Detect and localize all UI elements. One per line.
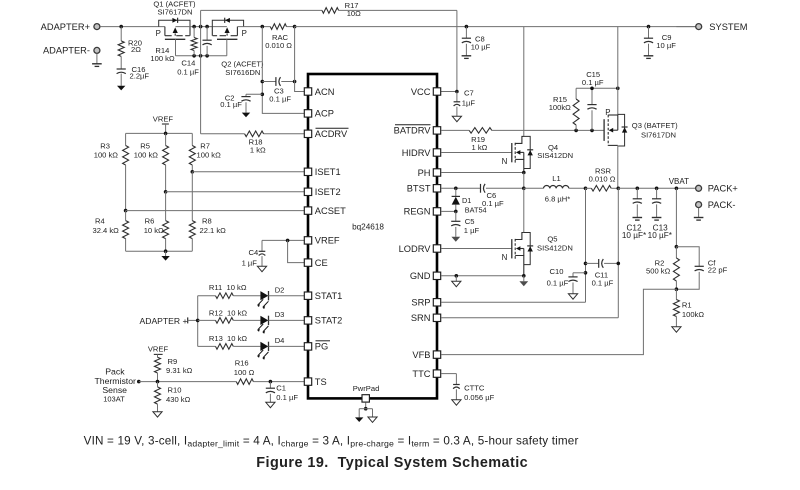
- wire SRP: [441, 301, 586, 303]
- svg-text:VFB: VFB: [412, 350, 430, 360]
- svg-text:VREF: VREF: [315, 236, 340, 246]
- ground (earth) below ADAPTER-: [92, 54, 102, 67]
- resistor R16: [234, 359, 304, 385]
- svg-text:R9: R9: [168, 357, 178, 366]
- node Q3 source column top: [616, 87, 620, 91]
- svg-text:ACSET: ACSET: [315, 206, 346, 216]
- node RAC right: [293, 25, 297, 29]
- capacitor C16: [117, 65, 150, 86]
- node ISET1 junction: [191, 170, 195, 174]
- net label VBAT: [669, 177, 689, 186]
- transistor Q4 SIS412DN: [502, 27, 573, 173]
- pin VCC: [411, 87, 441, 97]
- LED D3: [233, 310, 304, 334]
- svg-text:C4: C4: [249, 248, 259, 257]
- resistor R18: [201, 131, 304, 155]
- svg-text:VCC: VCC: [411, 87, 431, 97]
- pin LODRV: [399, 244, 441, 254]
- svg-text:100 Ω: 100 Ω: [234, 368, 255, 377]
- net label VREF (thermistor): [148, 344, 169, 357]
- ground (power) below Q5: [519, 276, 528, 287]
- svg-text:VREF: VREF: [148, 344, 169, 353]
- svg-text:0.1 µF: 0.1 µF: [276, 393, 298, 402]
- terminal PACK-: [696, 200, 736, 210]
- node C2 tap: [261, 93, 265, 97]
- svg-text:BAT54: BAT54: [465, 205, 487, 214]
- resistor R2: [646, 247, 679, 290]
- wire battery rail: [618, 187, 695, 189]
- svg-text:100kΩ: 100kΩ: [682, 310, 704, 319]
- wire BTST: [441, 187, 481, 189]
- pin ACP: [304, 109, 334, 119]
- resistor R13: [198, 334, 248, 349]
- node RSR right: [617, 187, 621, 191]
- pin SRN: [411, 313, 441, 323]
- svg-text:0.1 µF: 0.1 µF: [177, 68, 199, 77]
- resistor R17: [201, 1, 457, 18]
- capacitor CTTC: [453, 374, 494, 403]
- wire ACFET gate node: [176, 55, 227, 57]
- resistor R9: [155, 357, 193, 382]
- transistor Q3 (BATFET) SI7617DN: [604, 27, 678, 189]
- node R9/R10 junction: [156, 380, 160, 384]
- node C11 right: [617, 262, 621, 266]
- resistor R5: [134, 133, 169, 191]
- svg-text:BTST: BTST: [407, 184, 431, 194]
- ground below C16: [117, 86, 125, 91]
- node C3 left: [261, 80, 265, 84]
- node Q1/Q2 drain rail junctions: [192, 25, 209, 29]
- terminal ADAPTER-: [43, 46, 100, 56]
- capacitor C14: [177, 27, 212, 77]
- wire CE: [288, 240, 304, 262]
- wire Q2 source to RAC: [237, 26, 270, 28]
- capacitor C10: [547, 267, 586, 294]
- ground below C13: [652, 218, 662, 221]
- wire TS row left: [139, 381, 237, 383]
- svg-text:ACN: ACN: [315, 87, 335, 97]
- node C15 bottom: [590, 129, 594, 133]
- pin BATDRV: [394, 125, 441, 136]
- svg-text:10 µF: 10 µF: [471, 43, 491, 52]
- wire RAC left down to ACP: [262, 27, 304, 114]
- svg-text:N: N: [502, 253, 508, 262]
- svg-text:10 µF*: 10 µF*: [622, 231, 647, 240]
- capacitor C6: [481, 184, 524, 208]
- svg-text:C5: C5: [465, 217, 475, 226]
- svg-text:R8: R8: [202, 217, 212, 226]
- capacitor C11: [586, 259, 619, 288]
- svg-text:SI7616DN: SI7616DN: [225, 68, 260, 77]
- wire VREF pin: [262, 239, 304, 241]
- node C11 left: [584, 262, 588, 266]
- node R2 top: [675, 245, 679, 249]
- node LED feed junction: [196, 319, 200, 323]
- svg-text:0.1 µF: 0.1 µF: [582, 78, 604, 87]
- resistor R3: [94, 133, 129, 210]
- pin ACSET: [304, 206, 346, 216]
- svg-text:1 kΩ: 1 kΩ: [250, 146, 266, 155]
- label Pack Thermistor Sense: [94, 366, 136, 403]
- wire R7-R8 link: [191, 172, 193, 221]
- svg-text:PACK-: PACK-: [708, 200, 736, 210]
- svg-text:100kΩ: 100kΩ: [549, 103, 571, 112]
- pin CE: [304, 258, 327, 268]
- svg-text:D4: D4: [275, 336, 285, 345]
- wire ISET2: [166, 191, 304, 193]
- svg-text:2Ω: 2Ω: [131, 45, 141, 54]
- wire VCC pin: [441, 91, 457, 93]
- capacitor C4: [242, 240, 266, 267]
- capacitor C8: [462, 25, 491, 56]
- ground below C12: [633, 218, 643, 221]
- capacitor Cf: [676, 247, 727, 290]
- node gate cluster junctions: [192, 54, 209, 58]
- resistor R20: [118, 27, 142, 69]
- wire LED feed vertical: [197, 296, 199, 347]
- pin VREF: [304, 236, 340, 246]
- svg-text:STAT1: STAT1: [315, 291, 343, 301]
- caption conditions: [84, 434, 579, 448]
- pin GND: [410, 271, 441, 281]
- svg-text:0.010 Ω: 0.010 Ω: [265, 41, 292, 50]
- capacitor C3: [262, 77, 294, 103]
- resistor R14: [150, 27, 197, 63]
- svg-text:HIDRV: HIDRV: [402, 148, 432, 158]
- wire ACSET: [126, 211, 304, 221]
- capacitor C15: [582, 70, 604, 130]
- transistor Q1 (ACFET) SI7617DN: [153, 0, 196, 56]
- capacitor C1: [266, 382, 299, 403]
- resistor R19: [441, 128, 604, 152]
- node VREF tap: [164, 132, 168, 136]
- wire R17 down to VCC: [456, 10, 458, 91]
- transistor Q5 SIS412DN: [502, 188, 573, 275]
- svg-text:0.1 µF: 0.1 µF: [220, 100, 242, 109]
- LED D2: [233, 286, 304, 310]
- svg-text:D2: D2: [275, 286, 285, 295]
- svg-text:ADAPTER-: ADAPTER-: [43, 46, 90, 56]
- wire GND: [441, 275, 524, 277]
- svg-text:C14: C14: [181, 59, 195, 68]
- resistor R15: [549, 88, 579, 130]
- ground below R1: [672, 327, 681, 332]
- ground below C9: [644, 56, 654, 59]
- svg-text:10 µF*: 10 µF*: [648, 231, 673, 240]
- svg-text:VIN = 19 V, 3-cell, Iadapter_l: VIN = 19 V, 3-cell, Iadapter_limit = 4 A…: [84, 434, 579, 448]
- svg-text:STAT2: STAT2: [315, 316, 343, 326]
- ground below PACK-: [694, 208, 704, 220]
- svg-text:ISET1: ISET1: [315, 167, 341, 177]
- terminal SYSTEM: [676, 22, 747, 32]
- svg-text:TTC: TTC: [412, 369, 430, 379]
- svg-text:R7: R7: [200, 142, 210, 151]
- ground below C5: [451, 237, 460, 242]
- resistor RSR: [586, 167, 619, 192]
- resistor R6: [144, 217, 169, 252]
- transistor Q2 (ACFET) SI7616DN: [212, 18, 264, 77]
- node Q5 source junction: [522, 274, 526, 278]
- wire HIDRV: [441, 152, 512, 154]
- svg-text:VBAT: VBAT: [669, 177, 689, 186]
- svg-text:P: P: [156, 29, 161, 38]
- pin ISET1: [304, 167, 340, 177]
- net label VREF (divider): [153, 115, 174, 134]
- wire Q1-Q2 common node rail: [176, 26, 227, 28]
- svg-text:Figure 19. Typical System Sch: Figure 19. Typical System Schematic: [256, 455, 528, 471]
- svg-text:PACK+: PACK+: [708, 184, 738, 194]
- svg-text:L1: L1: [552, 174, 560, 183]
- ground below C4: [257, 266, 266, 271]
- svg-text:D1: D1: [462, 196, 471, 205]
- resistor R10: [155, 382, 191, 412]
- capacitor C13: [648, 187, 673, 240]
- svg-text:C10: C10: [550, 267, 564, 276]
- svg-text:100 kΩ: 100 kΩ: [150, 54, 175, 63]
- svg-text:32.4 kΩ: 32.4 kΩ: [93, 226, 120, 235]
- pin ACDRV: [304, 128, 348, 139]
- svg-text:BATDRV: BATDRV: [394, 126, 432, 136]
- svg-text:6.8 µH*: 6.8 µH*: [545, 195, 571, 204]
- node C1 tap: [269, 380, 273, 384]
- capacitor C7: [454, 89, 476, 117]
- wire divider top rail: [126, 132, 193, 134]
- svg-text:0.056 µF: 0.056 µF: [464, 393, 494, 402]
- resistor R12: [198, 309, 248, 324]
- wire VBAT down to R2: [675, 188, 677, 246]
- ground below C10: [568, 294, 577, 299]
- resistor R4: [93, 217, 129, 252]
- pin BTST: [407, 184, 441, 194]
- svg-text:1 µF: 1 µF: [242, 259, 258, 268]
- node D1 cathode tap: [454, 187, 458, 191]
- wire RAC right down to ACN: [295, 27, 304, 92]
- pin SRP: [411, 298, 440, 308]
- node PH junction: [522, 171, 526, 175]
- svg-text:SIS412DN: SIS412DN: [537, 244, 573, 253]
- svg-text:PH: PH: [418, 168, 431, 178]
- svg-text:R16: R16: [235, 359, 249, 368]
- terminal PACK+: [696, 184, 738, 194]
- diode D1 BAT54: [452, 188, 487, 214]
- pin PwrPad: [353, 384, 380, 417]
- svg-text:R11 10 kΩ: R11 10 kΩ: [209, 283, 247, 292]
- svg-text:R13 10 kΩ: R13 10 kΩ: [209, 334, 248, 343]
- svg-text:10Ω: 10Ω: [347, 9, 361, 18]
- op-amp U1 bq24618 IC body: [308, 74, 437, 398]
- node ISET2 junction: [164, 190, 168, 194]
- wire LODRV: [441, 248, 512, 250]
- svg-text:CTTC: CTTC: [464, 384, 485, 393]
- ground below C2: [242, 113, 250, 118]
- svg-text:PwrPad: PwrPad: [353, 384, 380, 393]
- capacitor C2: [220, 94, 262, 113]
- svg-text:430 kΩ: 430 kΩ: [166, 395, 191, 404]
- svg-text:C7: C7: [464, 89, 474, 98]
- resistor R7: [189, 133, 221, 171]
- svg-text:2.2µF: 2.2µF: [130, 71, 150, 80]
- svg-text:9.31 kΩ: 9.31 kΩ: [166, 366, 193, 375]
- svg-text:1 kΩ: 1 kΩ: [472, 143, 488, 152]
- svg-text:1µF: 1µF: [462, 99, 476, 108]
- capacitor C9: [644, 25, 676, 56]
- ground (power) below PwrPad: [355, 417, 363, 422]
- svg-text:SI7617DN: SI7617DN: [157, 8, 192, 17]
- svg-text:REGN: REGN: [404, 207, 431, 217]
- wire VFB: [441, 289, 676, 354]
- svg-text:R3: R3: [100, 142, 110, 151]
- pin VFB: [412, 350, 440, 360]
- wire RAC right to SYSTEM rail: [295, 26, 696, 28]
- wire divider bottom rail: [126, 250, 193, 252]
- svg-text:SRN: SRN: [411, 313, 431, 323]
- terminal ADAPTER+: [41, 22, 100, 32]
- svg-text:Q2 (ACFET): Q2 (ACFET): [221, 59, 264, 68]
- svg-text:Q5: Q5: [547, 235, 557, 244]
- svg-text:C1: C1: [276, 384, 286, 393]
- svg-text:R4: R4: [95, 217, 105, 226]
- svg-text:CE: CE: [315, 258, 328, 268]
- ground below C1: [266, 402, 275, 407]
- svg-text:R6: R6: [145, 217, 155, 226]
- wire VCC feed (center vertical): [200, 10, 202, 133]
- resistor R11: [198, 283, 247, 299]
- svg-text:0.1 µF: 0.1 µF: [269, 95, 291, 104]
- node RAC left: [261, 25, 265, 29]
- node C3 right: [293, 80, 297, 84]
- svg-text:100 kΩ: 100 kΩ: [197, 151, 222, 160]
- svg-text:PG: PG: [315, 342, 328, 352]
- wire ISET1: [192, 171, 304, 173]
- net label ADAPTER + (LED feed): [140, 316, 198, 326]
- caption Figure 19 title: [256, 455, 528, 471]
- pin TS: [304, 377, 326, 387]
- resistor RAC: [265, 24, 294, 50]
- node REGN junction: [454, 210, 458, 214]
- node switch node junction: [522, 187, 526, 191]
- svg-text:N: N: [502, 157, 508, 166]
- node ADAPTER+ / R20 tap: [119, 25, 123, 29]
- wire TTC: [441, 373, 456, 375]
- svg-text:SI7617DN: SI7617DN: [641, 131, 676, 140]
- svg-text:SYSTEM: SYSTEM: [709, 22, 747, 32]
- pin REGN: [404, 207, 441, 217]
- node VBAT: [675, 187, 679, 191]
- ground below C7: [452, 116, 461, 121]
- pin HIDRV: [402, 148, 441, 158]
- svg-text:bq24618: bq24618: [352, 223, 384, 232]
- pin PH: [418, 168, 441, 178]
- wire R15/C15 top node: [576, 87, 618, 89]
- wire R5-R6 link: [165, 192, 167, 221]
- svg-text:ISET2: ISET2: [315, 187, 341, 197]
- pin STAT1: [304, 291, 342, 301]
- pin ACN: [304, 87, 334, 97]
- wire ADAPTER+ rail to Q1: [100, 26, 165, 28]
- ground (analog) below GND pin: [452, 276, 461, 287]
- ground below C8: [462, 56, 472, 59]
- node thermistor terminal: [137, 380, 141, 384]
- pin STAT2: [304, 316, 342, 326]
- svg-text:GND: GND: [410, 271, 431, 281]
- svg-text:Q3 (BATFET): Q3 (BATFET): [632, 121, 678, 130]
- node divider ground tap: [164, 249, 168, 253]
- svg-text:VREF: VREF: [153, 115, 174, 124]
- svg-text:P: P: [242, 29, 247, 38]
- svg-text:LODRV: LODRV: [399, 244, 432, 254]
- node VREF/CE branch: [286, 239, 290, 243]
- capacitor C12: [622, 187, 647, 240]
- svg-text:22.1 kΩ: 22.1 kΩ: [200, 226, 227, 235]
- svg-text:ACP: ACP: [315, 109, 334, 119]
- inductor L1: [524, 174, 586, 203]
- wire SRN: [441, 317, 618, 319]
- svg-text:10 µF: 10 µF: [656, 41, 676, 50]
- LED D4: [233, 336, 304, 360]
- svg-text:R12 10 kΩ: R12 10 kΩ: [209, 309, 248, 318]
- svg-text:10 kΩ: 10 kΩ: [144, 226, 164, 235]
- wire REGN: [441, 210, 456, 212]
- svg-text:100 kΩ: 100 kΩ: [94, 151, 119, 160]
- pin ISET2: [304, 187, 340, 197]
- pin PG: [304, 341, 330, 352]
- resistor R1: [673, 289, 704, 327]
- pin TTC: [412, 369, 440, 379]
- svg-text:100 kΩ: 100 kΩ: [134, 151, 159, 160]
- svg-text:500 kΩ: 500 kΩ: [646, 266, 671, 275]
- wire SRN column: [617, 188, 619, 317]
- svg-text:SRP: SRP: [411, 298, 430, 308]
- svg-text:SIS412DN: SIS412DN: [537, 151, 573, 160]
- wire PH node down: [523, 173, 525, 189]
- ground below R10: [153, 412, 162, 417]
- svg-text:TS: TS: [315, 377, 327, 387]
- svg-text:R10: R10: [168, 386, 182, 395]
- node C15 top: [590, 87, 594, 91]
- node VCC / C7: [455, 90, 459, 94]
- node C10 tap: [584, 271, 588, 275]
- wire SRP column: [585, 188, 587, 302]
- svg-text:0.1 µF: 0.1 µF: [547, 279, 569, 288]
- svg-text:0.1 µF: 0.1 µF: [592, 279, 614, 288]
- svg-text:1 µF: 1 µF: [464, 226, 480, 235]
- svg-text:103AT: 103AT: [103, 395, 125, 404]
- ground below CTTC: [452, 400, 461, 405]
- node RSR left: [584, 187, 588, 191]
- resistor R8: [189, 217, 226, 252]
- svg-text:ADAPTER +: ADAPTER +: [140, 316, 188, 326]
- node ACSET junction: [124, 209, 128, 213]
- svg-text:R5: R5: [140, 142, 150, 151]
- ground (analog) below PwrPad: [368, 417, 377, 422]
- svg-text:ACDRV: ACDRV: [315, 129, 348, 139]
- ground below divider: [161, 251, 169, 260]
- svg-text:ADAPTER+: ADAPTER+: [41, 22, 90, 32]
- capacitor C5: [451, 211, 479, 236]
- svg-text:Sense: Sense: [102, 385, 127, 395]
- wire PH: [441, 172, 524, 174]
- node R2/R1 junction: [675, 287, 679, 291]
- svg-text:R1: R1: [682, 301, 692, 310]
- svg-text:0.010 Ω: 0.010 Ω: [589, 175, 616, 184]
- node R15 bottom: [574, 129, 578, 133]
- svg-text:22 pF: 22 pF: [708, 266, 728, 275]
- svg-text:D3: D3: [275, 310, 285, 319]
- node GND ground tap: [455, 274, 459, 278]
